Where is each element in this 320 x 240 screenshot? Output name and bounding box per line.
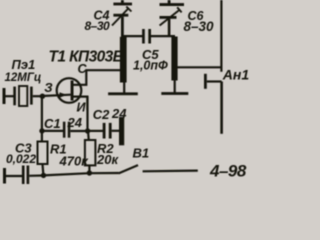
wire crystal to gate node xyxy=(33,95,43,97)
trimmer C6 arrow T-bar xyxy=(177,7,181,12)
node source junction dot xyxy=(85,128,90,133)
trimmer C4 top plate xyxy=(113,3,132,6)
capacitor C3 left plate xyxy=(22,166,25,185)
transistor T1 body circle xyxy=(57,78,82,103)
svg-text:И: И xyxy=(77,101,87,115)
resistor R2 body xyxy=(85,140,96,165)
capacitor C1 right plate xyxy=(68,122,71,138)
svg-text:С1: С1 xyxy=(44,116,61,131)
wire antenna down lead xyxy=(220,82,223,134)
wire top bus L1 to C5 xyxy=(121,35,143,37)
wire C3 to R1 node xyxy=(29,174,43,177)
ground bar L2 xyxy=(161,92,188,95)
resonator line L1 bar xyxy=(120,37,127,83)
resistor R1 body xyxy=(38,142,48,165)
resonator line L2 bar xyxy=(171,37,177,81)
capacitor C5 right plate xyxy=(148,29,151,44)
svg-text:З: З xyxy=(44,80,53,95)
crystal ZQ1 left terminal xyxy=(3,88,6,104)
svg-text:В1: В1 xyxy=(133,146,150,161)
wire bottom bus R1 node to R2 node xyxy=(44,173,90,175)
ground bar L1 xyxy=(108,92,138,95)
wire L2 to ground xyxy=(174,80,176,93)
trimmer C4 bottom lead xyxy=(121,17,124,38)
node C1 junction dot xyxy=(39,128,44,133)
capacitor C2 left plate xyxy=(103,123,106,139)
wire antenna plate to down lead xyxy=(207,80,222,82)
resistor R2 wire top xyxy=(87,131,90,141)
antenna An1 plate xyxy=(204,74,207,89)
capacitor C5 left plate xyxy=(142,29,145,44)
wire switch right segment xyxy=(143,170,198,173)
trimmer C4 arrow T-bar xyxy=(126,7,131,12)
trimmer C6 arrow xyxy=(160,10,180,26)
svg-text:20к: 20к xyxy=(96,152,119,167)
trimmer C6 top plate xyxy=(160,3,185,6)
capacitor C3 right plate xyxy=(27,166,30,185)
svg-text:8–30: 8–30 xyxy=(184,19,215,34)
wire C1 to source node xyxy=(70,130,88,132)
stub terminal bar after C2 xyxy=(119,117,124,145)
wire C2 to stub bar xyxy=(112,130,120,132)
transistor T1 channel bar xyxy=(71,81,74,101)
resistor R1 wire top xyxy=(41,131,43,142)
wire source node to C2 xyxy=(88,130,104,132)
capacitor C3 left terminal bar xyxy=(3,168,6,184)
svg-text:8–30: 8–30 xyxy=(85,19,111,33)
capacitor C2 right plate xyxy=(109,123,112,139)
node gate junction dot xyxy=(40,94,45,99)
resistor R1 wire bottom xyxy=(41,164,44,176)
switch B1 lever xyxy=(119,165,138,173)
trimmer C6 bottom plate xyxy=(160,16,177,19)
wire L1 to ground xyxy=(123,82,125,93)
wire drain to line L1 tap xyxy=(85,69,122,71)
trimmer C6 top lead xyxy=(168,0,171,4)
node R1 bottom junction dot xyxy=(41,173,46,178)
svg-text:4–98: 4–98 xyxy=(209,162,247,181)
wire terminal to C3 xyxy=(6,175,23,177)
wire R2 node to switch contact xyxy=(89,172,118,174)
transistor T1 drain lead xyxy=(72,70,86,85)
svg-text:12МГц: 12МГц xyxy=(5,72,42,84)
crystal ZQ1 right plate xyxy=(30,87,33,105)
svg-text:Т1 КП303Е: Т1 КП303Е xyxy=(49,48,124,65)
node R2 bottom junction dot xyxy=(87,170,92,175)
trimmer C4 arrow xyxy=(112,9,128,26)
wire source down to C1-C2 node xyxy=(86,97,88,131)
wire gate node down to C1 node xyxy=(41,96,43,131)
svg-text:Ан1: Ан1 xyxy=(222,66,250,82)
svg-text:1,0пФ: 1,0пФ xyxy=(133,58,168,72)
wire terminal to crystal xyxy=(6,95,15,97)
wire C1 node to C1 left plate xyxy=(42,130,64,132)
paper background xyxy=(0,0,250,188)
crystal ZQ1 body xyxy=(19,86,27,106)
wire gate node to transistor gate xyxy=(42,95,70,96)
svg-text:0,022: 0,022 xyxy=(6,152,36,166)
transistor T1 gate arrow xyxy=(60,92,68,97)
trimmer C6 bottom lead xyxy=(168,19,171,37)
crystal ZQ1 left plate xyxy=(13,87,16,106)
wire C5 to L2 xyxy=(151,35,175,37)
transistor T1 source lead xyxy=(72,97,87,110)
svg-text:24: 24 xyxy=(67,115,83,130)
resistor R2 wire bottom xyxy=(88,165,90,173)
svg-text:Пэ1: Пэ1 xyxy=(12,57,36,72)
wire antenna riser up to edge xyxy=(220,0,222,72)
capacitor C1 left plate xyxy=(63,122,66,138)
svg-text:С2: С2 xyxy=(93,107,110,122)
svg-text:24: 24 xyxy=(111,106,127,121)
wire L2 tap to antenna riser xyxy=(177,66,222,68)
trimmer C4 bottom plate xyxy=(113,14,128,17)
trimmer C4 top lead xyxy=(121,0,124,3)
